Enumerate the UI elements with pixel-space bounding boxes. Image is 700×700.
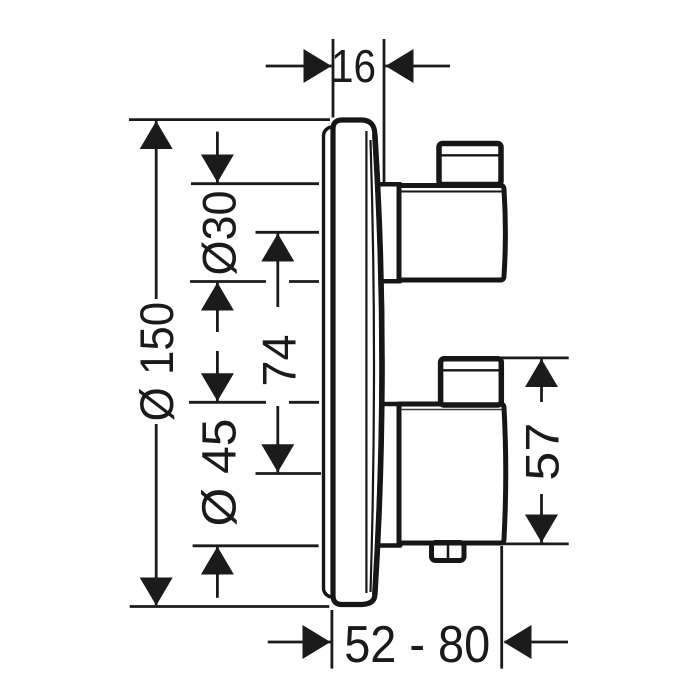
svg-text:Ø 45: Ø 45	[194, 419, 247, 527]
svg-text:Ø30: Ø30	[193, 191, 246, 276]
svg-text:16: 16	[331, 40, 376, 92]
svg-text:Ø 150: Ø 150	[131, 302, 184, 422]
svg-text:57: 57	[515, 423, 568, 481]
svg-text:52 - 80: 52 - 80	[344, 616, 490, 674]
svg-text:74: 74	[252, 335, 305, 387]
